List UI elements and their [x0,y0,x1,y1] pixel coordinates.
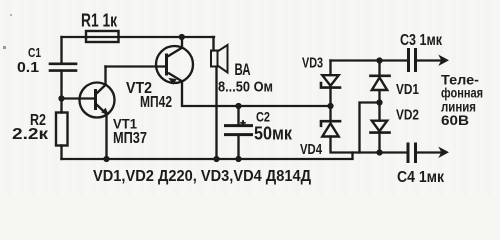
wire speaker top lead [212,37,214,51]
diode VD2 [371,121,390,133]
wire VD2 bottom lead [378,133,380,153]
svg-text:фонная: фонная [441,86,483,101]
node dot VT1 base [58,95,64,101]
wire C4 arrow shaft [416,151,442,153]
svg-text:VD2: VD2 [396,107,419,124]
wire VT1 emitter down [105,114,107,159]
scan speck left edge [3,46,6,49]
svg-text:VD1: VD1 [396,81,419,98]
wire VD4 bottom lead and corner to bottom wire [331,137,409,153]
node dot top rail / VT2 collector [179,34,185,40]
wire VD3 bottom lead [329,88,331,106]
wire base node to VT1 base [62,97,95,99]
svg-text:C3 1мк: C3 1мк [400,32,443,49]
node dot VD2 bottom [376,149,382,155]
wire C2 top lead [237,106,239,125]
arrowhead to telephone line bottom [438,147,449,158]
arrowhead to telephone line top [438,55,449,66]
wire VT2 emitter down and right [182,81,331,106]
svg-text:8...50 Ом: 8...50 Ом [218,79,273,96]
wire VD1 top lead [378,61,380,76]
svg-text:VD1,VD2 Д220, VD3,VD4 Д814Д: VD1,VD2 Д220, VD3,VD4 Д814Д [93,168,312,185]
svg-text:60В: 60В [441,113,469,128]
wire diode section top rail [331,59,409,61]
svg-text:МП37: МП37 [113,130,147,147]
capacitor C4 [408,144,416,162]
svg-text:C1: C1 [28,45,41,60]
node dot C2 at rail [235,156,241,162]
svg-text:C2: C2 [256,109,270,125]
wire R2 bottom to rail [60,146,62,160]
svg-text:ВА: ВА [235,61,251,79]
capacitor C1 [50,64,76,71]
node dot speaker at rail [213,156,219,162]
diode VD1 [371,76,390,90]
VT1 emitter arrow [101,108,109,116]
svg-text:R1 1к: R1 1к [81,11,118,31]
node dot VT1 emitter at rail [103,156,109,162]
node dot VD3-VD4 junction [327,103,333,109]
transistor VT1 [80,83,115,118]
svg-text:0.1: 0.1 [17,59,39,76]
wire VD3 top lead [329,61,331,76]
wire VD4 top lead [329,106,331,121]
plus sign of C2 [240,120,245,125]
wire VD2 top lead [378,103,380,121]
wire C1 bottom to base node [60,71,62,113]
svg-text:VD4: VD4 [300,141,322,158]
resistor R2 [56,113,68,146]
wire C2 bottom lead [237,136,239,160]
speaker BA [211,45,228,73]
wire top rail [62,36,215,38]
zener VD3 [321,75,340,87]
wire VD1-VD2 junction L-wire [360,103,380,153]
node dot C2 top at emitter wire [235,103,241,109]
transistor VT2 [156,46,193,83]
resistor R1 [86,31,119,42]
node dot VD1-VD2 junction [376,99,382,105]
capacitor C2 [226,126,252,135]
wire C3 arrow shaft [416,59,442,61]
VT2 emitter arrow [168,78,176,85]
zener VD4 [321,121,340,136]
wire VT1 collector up [104,67,106,86]
wire VT1 collector to VT2 base [106,65,167,67]
svg-text:VD3: VD3 [302,55,323,72]
wire VD1 bottom lead [378,91,380,103]
svg-text:C4 1мк: C4 1мк [397,169,445,186]
wire VT2 collector to rail [181,37,183,48]
wire bottom rail [62,153,353,160]
wire speaker bottom lead [215,67,217,159]
svg-text:50мк: 50мк [254,124,293,144]
svg-text:2.2к: 2.2к [12,126,49,143]
wire left column top (C1 top lead) [60,37,62,63]
capacitor C3 [409,50,416,71]
svg-text:МП42: МП42 [140,94,172,111]
node dot diode rail / VD1 [376,57,382,63]
scan speck top left [10,14,12,16]
